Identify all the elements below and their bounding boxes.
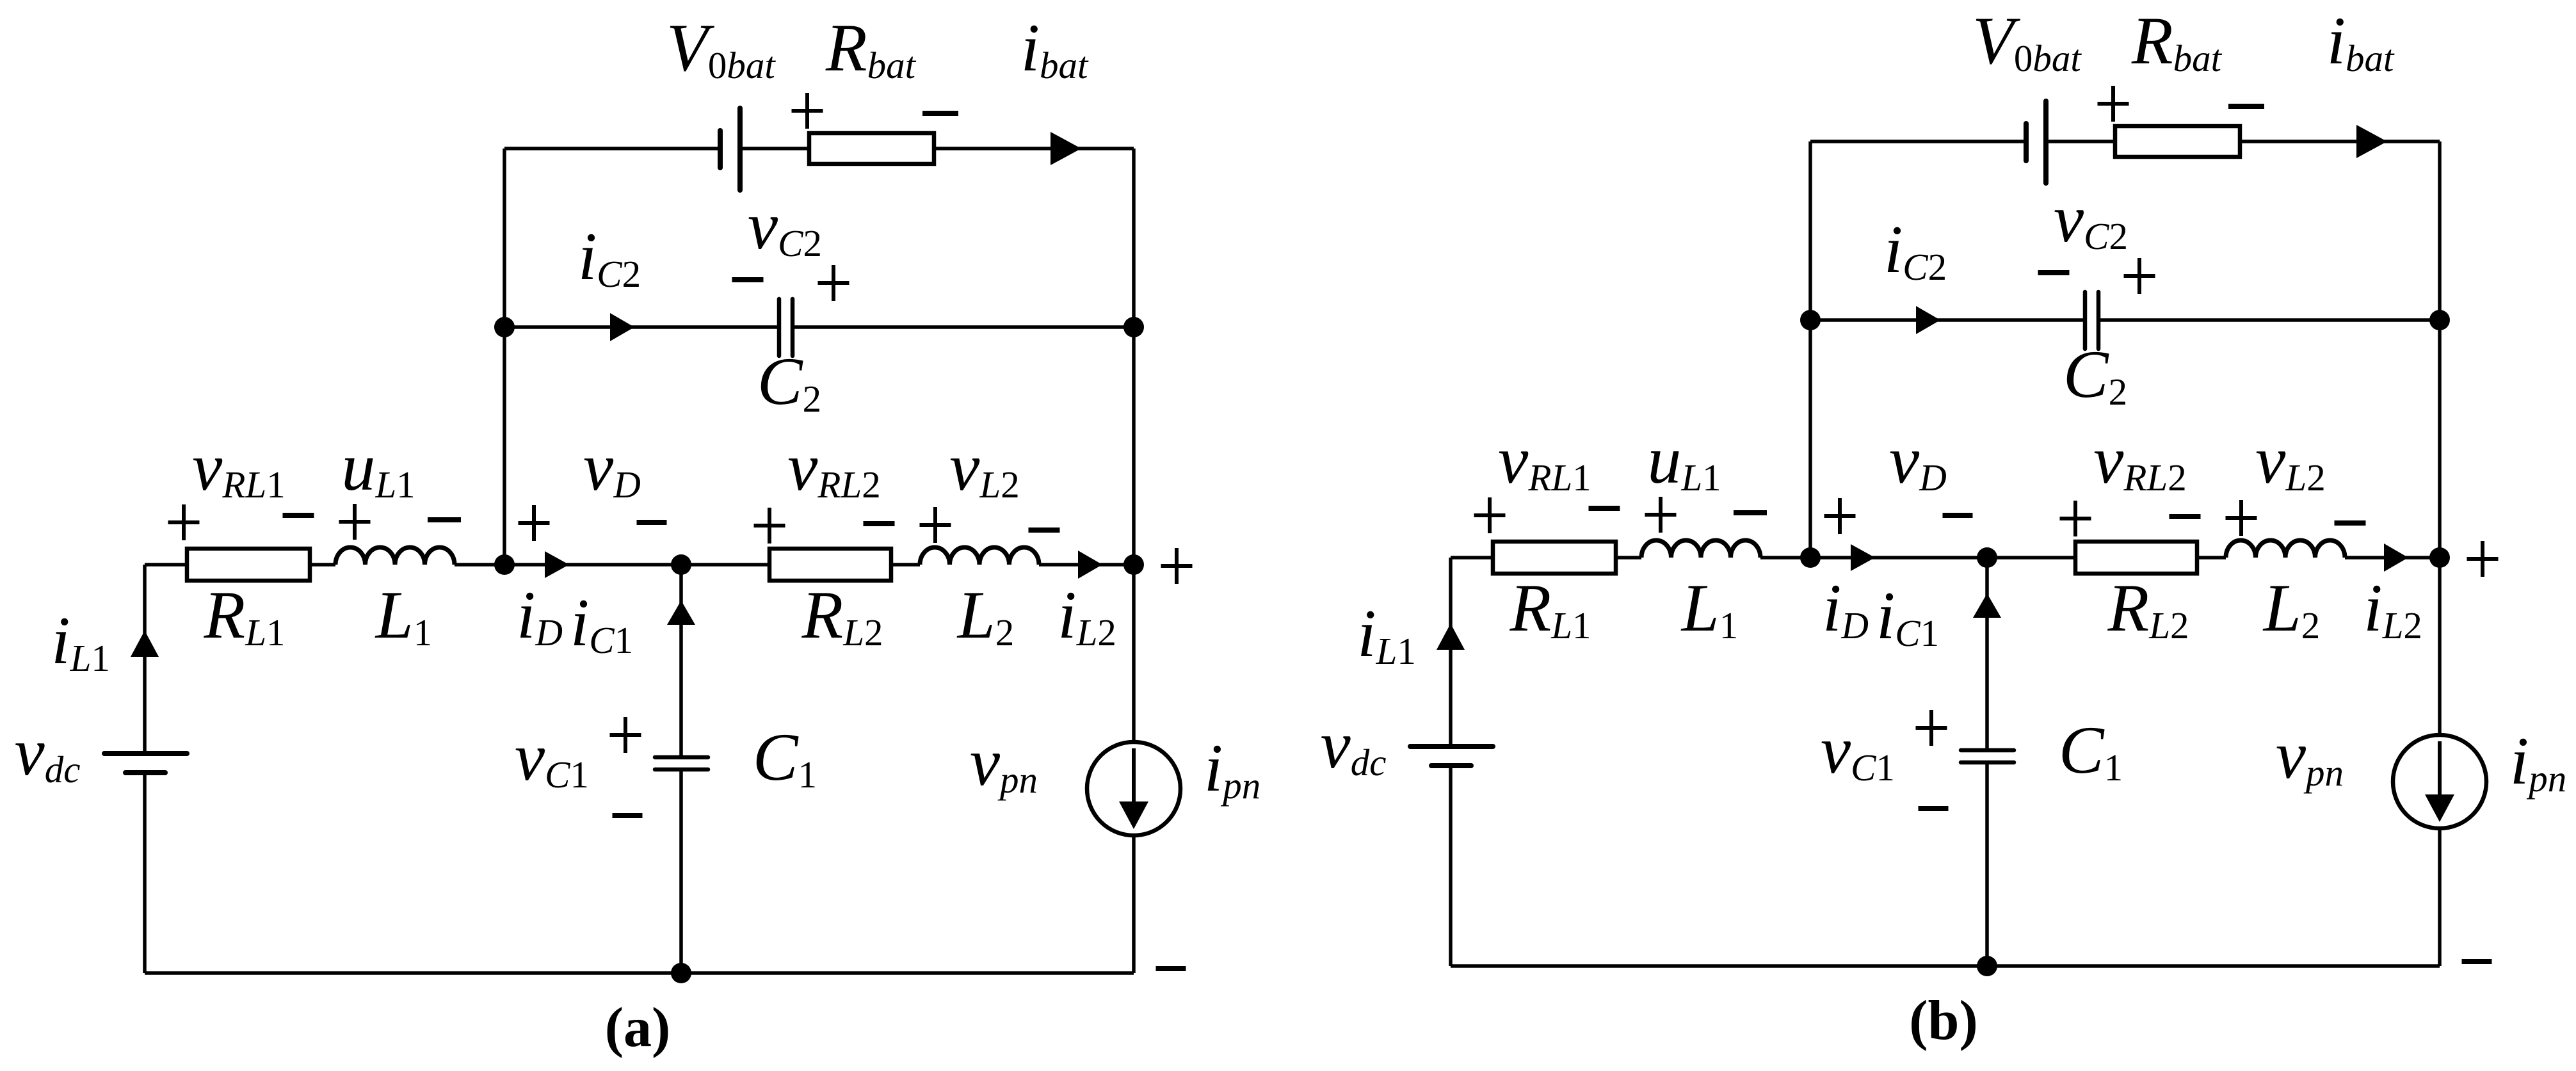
wire C2 row left (a): [504, 325, 779, 329]
svg-text:vRL1: vRL1: [192, 430, 285, 506]
svg-text:L2: L2: [956, 577, 1014, 654]
polarity vC2 (b): [2038, 270, 2070, 275]
svg-text:iD: iD: [1823, 570, 1869, 647]
svg-text:RL2: RL2: [801, 577, 883, 654]
resistor RL2 (a): [769, 549, 891, 581]
svg-text:vpn: vpn: [970, 725, 1038, 801]
wire right vertical upper (b): [2438, 141, 2442, 735]
current source ipn (a): [1087, 742, 1180, 835]
node diode-left (a): [494, 554, 515, 575]
wire right vertical upper (a): [1132, 149, 1136, 742]
svg-text:vL2: vL2: [949, 430, 1019, 506]
wire L1 to C1 node (b): [1760, 556, 1987, 560]
wire battery to Rbat (a): [740, 147, 809, 150]
node main-right (a): [1123, 554, 1144, 575]
node diode-left (b): [1800, 547, 1821, 568]
capacitor C2 (b): [2085, 292, 2098, 349]
svg-text:vpn: vpn: [2276, 718, 2344, 794]
svg-text:L2: L2: [2262, 570, 2320, 647]
inductor L1 (a): [335, 547, 455, 565]
resistor RL1 (b): [1493, 542, 1616, 574]
svg-text:ipn: ipn: [2510, 723, 2566, 800]
wire main row left (a): [145, 563, 335, 567]
svg-text:RL2: RL2: [2107, 570, 2189, 647]
wire C1 branch lower (a): [679, 769, 683, 973]
svg-text:V0bat: V0bat: [1972, 3, 2082, 79]
svg-text:vRL2: vRL2: [2093, 423, 2186, 499]
polarity uL1 (b): [1645, 497, 1677, 533]
capacitor C1 (b): [1961, 750, 2014, 762]
wire vdc branch upper (a): [143, 565, 147, 753]
current source arrow (b): [2438, 741, 2442, 796]
node C1-top (b): [1977, 547, 1997, 568]
polarity vRL1 (b): [1474, 497, 1506, 533]
wire L1 to C1 node (a): [455, 563, 681, 567]
svg-text:iC2: iC2: [578, 219, 641, 295]
svg-text:iL2: iL2: [2363, 570, 2422, 647]
polarity vC1 (a): [610, 717, 641, 753]
svg-text:uL1: uL1: [341, 430, 415, 506]
svg-text:iC1: iC1: [570, 585, 633, 661]
polarity vC1 (b): [1916, 710, 1947, 746]
svg-text:uL1: uL1: [1647, 423, 1721, 499]
arrow iC2 (b): [1916, 306, 1940, 334]
svg-text:Rbat: Rbat: [825, 10, 917, 86]
svg-text:vC2: vC2: [748, 188, 822, 264]
node C1-bottom (a): [671, 963, 691, 983]
battery V0bat (a): [720, 108, 740, 190]
inductor L2 (a): [920, 547, 1039, 565]
wire vdc branch lower (b): [1449, 766, 1453, 966]
current source ipn (b): [2393, 735, 2486, 828]
arrow iL1 (a): [131, 631, 159, 657]
wire L2 to right node (b): [2345, 556, 2440, 560]
svg-text:RL1: RL1: [1509, 570, 1591, 647]
node C2-left (a): [494, 317, 515, 337]
wire C1 node to RL2 (b): [1987, 556, 2075, 560]
wire C1 node to RL2 (a): [681, 563, 769, 567]
svg-text:vD: vD: [1889, 423, 1947, 499]
polarity Rbat (b): [2098, 86, 2129, 122]
wire right vertical lower (a): [1132, 835, 1136, 973]
svg-text:vRL1: vRL1: [1498, 423, 1591, 499]
polarity Rbat (a): [792, 93, 823, 129]
svg-text:L1: L1: [374, 577, 432, 654]
svg-text:iD: iD: [517, 577, 563, 654]
arrow iL2 (b): [2384, 544, 2408, 572]
svg-text:(a): (a): [605, 997, 671, 1059]
wire C2 row right (b): [2098, 318, 2440, 322]
wire top-left corner / top rail (b): [1810, 140, 2026, 143]
svg-text:iL1: iL1: [1357, 596, 1416, 672]
svg-text:C2: C2: [2063, 337, 2127, 413]
inductor L2 (b): [2226, 540, 2345, 558]
svg-text:Rbat: Rbat: [2131, 3, 2223, 79]
polarity uL1 (a): [339, 504, 371, 540]
svg-text:C1: C1: [753, 720, 817, 796]
resistor Rbat (a): [809, 133, 934, 164]
wire C1 branch upper (b): [1985, 558, 1989, 750]
svg-text:vD: vD: [583, 430, 641, 506]
arrow ibat (b): [2356, 125, 2387, 158]
svg-text:ibat: ibat: [2327, 3, 2395, 79]
node main-right (b): [2429, 547, 2450, 568]
wire C1 branch lower (b): [1985, 762, 1989, 966]
svg-text:vL2: vL2: [2255, 423, 2325, 499]
resistor RL2 (b): [2075, 542, 2197, 574]
wire right vertical lower (b): [2438, 828, 2442, 966]
svg-text:iC1: iC1: [1876, 578, 1939, 654]
arrow ibat (a): [1051, 132, 1081, 165]
svg-text:vRL2: vRL2: [787, 430, 880, 506]
arrow iC2 (a): [610, 313, 634, 341]
svg-text:C2: C2: [757, 344, 821, 420]
polarity vRL2 (a): [754, 508, 785, 544]
wire bottom rail (a): [145, 971, 1134, 975]
wire C1 branch upper (a): [679, 565, 683, 757]
svg-text:(b): (b): [1909, 990, 1978, 1052]
svg-text:C1: C1: [2059, 713, 2123, 789]
arrow iL1 (b): [1437, 624, 1465, 650]
polarity vC2 (a): [732, 277, 764, 282]
node C1-bottom (b): [1977, 956, 1997, 976]
node C2-right (b): [2429, 310, 2450, 330]
wire main row left (b): [1451, 556, 1641, 560]
inductor L1 (b): [1641, 540, 1760, 558]
wire vdc branch lower (a): [143, 773, 147, 973]
svg-text:iL1: iL1: [51, 603, 110, 679]
polarity output (a): [1161, 548, 1193, 584]
svg-text:vdc: vdc: [1321, 707, 1387, 784]
svg-text:vC2: vC2: [2054, 181, 2128, 257]
wire bottom rail (b): [1451, 964, 2440, 968]
svg-text:vC1: vC1: [1821, 713, 1895, 789]
resistor Rbat (b): [2115, 126, 2240, 157]
svg-text:ipn: ipn: [1204, 730, 1260, 807]
arrow iC1 (a): [667, 600, 695, 625]
wire Rbat to top-right corner (a): [934, 147, 1134, 150]
current source arrow (a): [1132, 748, 1136, 803]
wire C2 row right (a): [793, 325, 1134, 329]
wire Rbat to top-right corner (b): [2240, 140, 2440, 143]
svg-text:L1: L1: [1680, 570, 1738, 647]
capacitor C1 (a): [655, 757, 708, 769]
polarity vL2 (a): [920, 507, 951, 543]
wire RL2 to L2 (b): [2197, 556, 2226, 560]
arrow iD (a): [545, 551, 569, 578]
node C1-top (a): [671, 554, 691, 575]
wire C2 row left (b): [1810, 318, 2085, 322]
polarity vL2 (b): [2226, 500, 2257, 536]
wire L2 to right node (a): [1039, 563, 1134, 567]
wire left vertical (battery loop) (a): [503, 149, 506, 565]
arrow iL2 (a): [1078, 551, 1102, 579]
wire vdc branch upper (b): [1449, 558, 1453, 746]
wire battery to Rbat (b): [2046, 140, 2115, 143]
svg-text:vdc: vdc: [15, 714, 81, 791]
svg-text:iC2: iC2: [1884, 212, 1947, 288]
svg-text:V0bat: V0bat: [666, 10, 776, 86]
wire left vertical (battery loop) (b): [1808, 141, 1812, 558]
wire top-left corner / top rail (a): [504, 147, 720, 150]
resistor RL1 (a): [187, 549, 310, 581]
wire RL2 to L2 (a): [891, 563, 920, 567]
svg-text:ibat: ibat: [1021, 10, 1089, 86]
polarity output (b): [2467, 541, 2499, 577]
capacitor C2 (a): [779, 299, 793, 356]
svg-text:vC1: vC1: [515, 720, 589, 796]
battery vdc (b): [1410, 746, 1493, 766]
arrow iD (b): [1851, 544, 1875, 571]
node C2-left (b): [1800, 310, 1821, 330]
svg-text:RL1: RL1: [203, 577, 285, 654]
arrow iC1 (b): [1973, 593, 2001, 618]
battery V0bat (b): [2026, 101, 2046, 183]
polarity vD (a): [519, 505, 550, 541]
battery vdc (a): [104, 753, 187, 773]
polarity vD (b): [1824, 498, 1856, 534]
polarity vRL2 (b): [2060, 501, 2091, 536]
svg-text:iL2: iL2: [1058, 577, 1116, 654]
polarity vRL1 (a): [168, 504, 200, 540]
node C2-right (a): [1123, 317, 1144, 337]
